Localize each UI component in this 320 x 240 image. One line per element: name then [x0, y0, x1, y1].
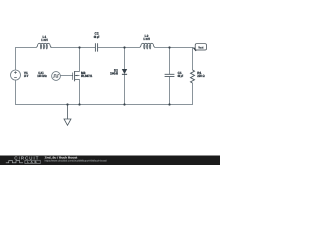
node junction D2 top: [123, 46, 125, 48]
label R1 220 ohm: [197, 71, 205, 78]
node junction ground: [66, 103, 68, 105]
wire: CLK1 to M3 gate: [60, 75, 72, 77]
inductor L1: [37, 43, 52, 49]
clock source CLK1: [52, 72, 61, 81]
node junction M3 drain: [78, 46, 80, 48]
svg-text:Vout: Vout: [198, 45, 203, 49]
svg-text:https://www.circuitlab.com/cir: https://www.circuitlab.com/circuit/68bup…: [45, 159, 107, 162]
svg-text:1 mH: 1 mH: [143, 37, 150, 41]
label D2 1N4148: [110, 68, 118, 75]
node junction C1 bottom: [168, 103, 170, 105]
svg-text:68 µF: 68 µF: [94, 35, 100, 39]
label CLK1 100 kHz: [37, 71, 47, 78]
label L2 1 mH: [143, 34, 150, 41]
node junction M3 source: [78, 103, 80, 105]
wire: bottom rail ground junction to R1 bottom corner: [68, 83, 193, 105]
label L1 1 mH: [41, 35, 48, 42]
footer title text: [45, 156, 107, 163]
wire: D2 branch vertical: [124, 48, 126, 106]
wire: top rail L2 to C1 junction to right corner, down to R1: [155, 48, 193, 71]
ground: [64, 105, 71, 126]
wire: M3 source vertical: [79, 79, 81, 105]
CircuitLab logo: [6, 156, 40, 165]
wire: V1 bottom to bottom-left corner: [16, 80, 68, 105]
wire: top rail left segment (corner to L1): [16, 48, 37, 71]
svg-text:10 V: 10 V: [24, 74, 29, 78]
node junction C1 top: [168, 46, 170, 48]
node junction D2 bottom: [123, 103, 125, 105]
wire: top rail M3 junction to C2 left plate: [80, 47, 96, 49]
transistor M3 body arrow: [75, 75, 77, 77]
wire: M3 drain vertical: [79, 48, 81, 72]
capacitor C2: [95, 43, 97, 51]
voltage source V1: [11, 70, 21, 80]
svg-text:1 mH: 1 mH: [41, 38, 48, 42]
node flag Vout: [192, 44, 206, 52]
resistor R1: [191, 70, 195, 83]
label C1 68 uF: [178, 71, 184, 78]
wire: C1 branch vertical: [169, 48, 171, 106]
svg-text:220 Ω: 220 Ω: [197, 74, 205, 78]
wire: top rail C2 right plate to D2 junction: [98, 47, 125, 49]
svg-text:1N4148: 1N4148: [110, 71, 118, 75]
diode D2: [122, 69, 127, 74]
svg-text:LAB: LAB: [27, 160, 38, 164]
wire: top rail D2 junction to L2: [125, 47, 140, 49]
svg-text:IRLB8721: IRLB8721: [81, 74, 92, 78]
footer bar: [0, 156, 220, 166]
inductor L2: [140, 43, 155, 49]
svg-text:100 kHz: 100 kHz: [37, 74, 47, 78]
label C2 68 uF: [94, 32, 100, 39]
wire: top rail L1 to M3 drain junction: [51, 47, 80, 49]
transistor M3 (NMOS): [73, 71, 80, 81]
capacitor C1: [165, 74, 175, 76]
label V1 10 V: [24, 71, 29, 78]
label M3 IRLB8721: [81, 71, 92, 78]
svg-text:68 µF: 68 µF: [178, 74, 184, 78]
